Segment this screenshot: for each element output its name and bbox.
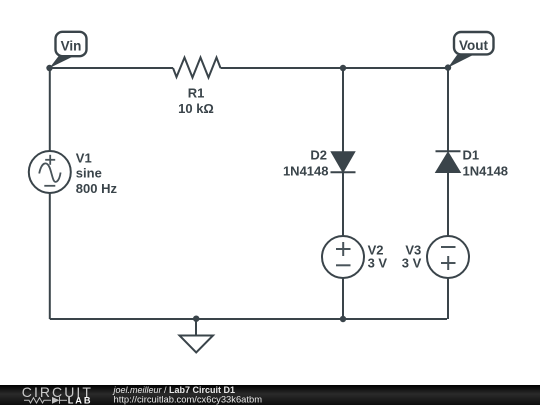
wire bottom rail bbox=[50, 318, 447, 320]
wire left: V1 bottom to bottom rail bbox=[49, 193, 51, 319]
diode D2 (cathode down) bbox=[332, 152, 354, 171]
diode D1 (cathode up) bbox=[437, 153, 460, 172]
voltage source V3 circle bbox=[427, 236, 469, 278]
svg-text:Vin: Vin bbox=[61, 38, 82, 53]
resistor R1 bbox=[173, 58, 221, 78]
wire: diode D2 to V2 top bbox=[342, 172, 344, 236]
svg-text:10 kΩ: 10 kΩ bbox=[178, 101, 214, 116]
svg-text:sine: sine bbox=[76, 165, 102, 180]
node bottom junction dot bbox=[340, 316, 346, 322]
V3 symbol internals: minus on top, plus below bbox=[441, 247, 456, 270]
svg-text:Vout: Vout bbox=[459, 38, 488, 53]
ground triangle bbox=[180, 336, 214, 353]
net label Vin bbox=[50, 32, 87, 68]
node Vin junction dot bbox=[46, 65, 52, 71]
svg-text:LAB: LAB bbox=[68, 395, 93, 405]
svg-text:V1: V1 bbox=[76, 150, 92, 165]
node A junction dot bbox=[340, 65, 346, 71]
ground stem bbox=[195, 319, 197, 336]
V2 symbol internals: plus on top, minus below bbox=[336, 242, 351, 265]
footer black bar bbox=[0, 385, 540, 405]
wire top: Vin node to resistor R1 left bbox=[50, 67, 174, 69]
svg-text:D1: D1 bbox=[463, 148, 480, 163]
wire: V2 bottom to bottom rail bbox=[342, 278, 344, 319]
wire: V3 bottom to bottom rail bbox=[447, 278, 449, 319]
node Vout junction dot bbox=[445, 64, 451, 70]
V1 symbol internals: plus, sine, minus bbox=[39, 155, 60, 186]
svg-text:http://circuitlab.com/cx6cy33k: http://circuitlab.com/cx6cy33k6atbm bbox=[114, 393, 263, 404]
svg-text:1N4148: 1N4148 bbox=[463, 164, 509, 179]
wire: node A down to diode D2 bbox=[342, 68, 344, 153]
wire: diode D1 to V3 top bbox=[447, 172, 449, 236]
svg-text:3 V: 3 V bbox=[368, 256, 388, 271]
svg-text:800 Hz: 800 Hz bbox=[76, 181, 118, 196]
footer text bbox=[113, 385, 263, 405]
wire top: resistor R1 right to node A bbox=[221, 67, 344, 69]
svg-text:D2: D2 bbox=[310, 148, 327, 163]
voltage source V1 circle bbox=[29, 151, 71, 193]
svg-text:3 V: 3 V bbox=[402, 256, 422, 271]
voltage source V2 circle bbox=[322, 236, 364, 278]
net label Vout bbox=[448, 32, 494, 68]
CircuitLab logo wordmark bbox=[22, 384, 93, 405]
wire top: node A to Vout node bbox=[343, 67, 448, 69]
ground node dot bbox=[193, 316, 199, 322]
svg-text:1N4148: 1N4148 bbox=[283, 164, 329, 179]
wire left: Vin node down to V1 top bbox=[49, 68, 51, 151]
wire: Vout node down to diode D1 bbox=[447, 68, 449, 152]
svg-text:R1: R1 bbox=[188, 86, 205, 101]
